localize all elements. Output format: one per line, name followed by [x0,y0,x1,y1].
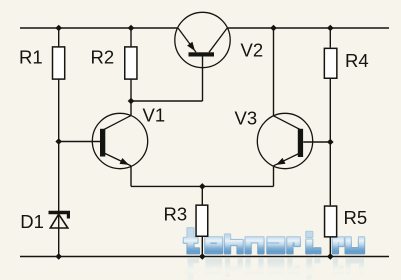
wire R4 bottom to node [329,79,331,142]
wire V1 emitter vertical [130,166,132,187]
svg-text:V2: V2 [241,40,264,61]
wire node to R5 top [329,142,331,205]
transistor V3 emitter line with arrow [274,153,302,166]
transistor V1 base bar [100,129,105,157]
node junction bottom D1 [55,253,62,260]
wire bottom bus [20,256,389,258]
transistor V1 body circle [92,113,147,168]
transistor V1 collector line [103,116,131,131]
wire R3 bottom lead [201,237,203,257]
resistor R4 [324,48,337,78]
wire node to V2 base horizontal [131,100,203,102]
node junction top V3 collector [270,25,277,32]
wire R4 top lead [329,28,331,48]
transistor V2 collector line [209,28,227,52]
svg-text:V1: V1 [143,105,166,126]
wire R2 top lead [130,28,132,47]
svg-text:R5: R5 [344,207,368,228]
node junction top R2 [128,25,135,32]
wire R1 top lead [58,28,60,47]
svg-text:D1: D1 [20,211,44,232]
wire V3 collector vertical [273,28,275,116]
transistor V3 base bar [298,129,303,157]
node junction V1 base [55,138,62,145]
watermark reflection [184,258,364,280]
resistor R3 [196,205,208,236]
transistor V3 body circle [257,113,312,168]
wire R5 bottom lead [329,237,331,256]
resistor R5 [325,206,337,237]
svg-text:R2: R2 [91,46,115,67]
svg-text:R1: R1 [19,46,43,67]
node junction V3 base [327,139,334,146]
wire R1 bottom to D1 [58,80,60,212]
svg-text:V3: V3 [235,108,258,129]
wire V2 base vertical [202,56,204,101]
svg-text:R3: R3 [164,204,188,225]
transistor V1 emitter line with arrow [103,153,131,166]
transistor V2 base bar [189,52,215,56]
zener diode D1 [49,213,71,229]
resistor R2 [125,47,137,79]
node junction R3 top [199,183,206,190]
wire R3 top lead [201,186,203,205]
wire emitter bus V1 to V3 [131,185,274,187]
transistor V2 emitter line with arrow [178,28,196,52]
wire V1 collector vertical [130,101,132,116]
wire D1 to bottom bus [58,212,60,257]
node junction top R4 [327,25,334,32]
wire V3 base lead [303,141,330,143]
transistor V2 body circle [175,12,230,67]
node junction bottom R5 [327,253,334,260]
node junction bottom R3 [199,253,206,260]
wire V1 base lead [59,141,101,143]
wire R2 bottom to node [130,80,132,102]
node junction top R1 [55,25,62,32]
resistor R1 [53,47,65,79]
wire V3 emitter vertical [273,166,275,187]
watermark tehnari.ru [184,228,364,253]
wire top bus left segment [20,27,178,29]
transistor V3 collector line [274,116,302,130]
wire top bus right segment [227,27,389,29]
svg-text:R4: R4 [345,50,369,71]
node junction R2 bottom [128,98,135,105]
